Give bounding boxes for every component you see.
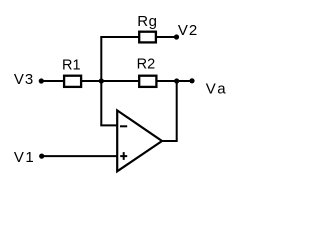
svg-text:R1: R1 xyxy=(62,57,81,73)
wire R1 to node A xyxy=(82,80,101,82)
svg-text:V3: V3 xyxy=(14,71,34,88)
wire op-amp output xyxy=(161,140,177,142)
node Va terminal dot xyxy=(189,78,194,83)
svg-text:R2: R2 xyxy=(137,57,156,73)
op-amp plus sign xyxy=(120,152,127,160)
node V3 terminal dot xyxy=(39,78,44,83)
node V1 terminal dot xyxy=(39,154,44,159)
wire to Rg xyxy=(100,36,139,38)
wire V3 to R1 xyxy=(41,80,64,82)
node A junction dot xyxy=(99,78,104,83)
resistor R1 xyxy=(64,76,81,87)
op-amp minus sign xyxy=(120,125,127,127)
wire feedback up to node B xyxy=(176,80,178,142)
svg-text:V1: V1 xyxy=(14,149,35,166)
svg-text:Rg: Rg xyxy=(137,13,157,30)
wire to op-amp minus input xyxy=(100,124,117,126)
wire R2 to node B xyxy=(157,80,177,82)
svg-text:Va: Va xyxy=(206,81,228,98)
op-amp U1 triangle xyxy=(117,110,162,171)
wire node A down to inverting input xyxy=(100,80,102,125)
wire node A up to Rg row xyxy=(100,37,102,82)
wire V1 to op-amp plus input xyxy=(42,155,117,157)
wire node B to Va terminal xyxy=(177,80,192,82)
resistor R2 xyxy=(139,76,156,87)
node V2 terminal dot xyxy=(174,34,179,39)
node B junction dot xyxy=(174,78,179,83)
wire node A to R2 xyxy=(101,80,139,82)
svg-text:V2: V2 xyxy=(178,22,198,39)
resistor Rg xyxy=(139,32,156,43)
wire Rg to V2 xyxy=(157,36,177,38)
